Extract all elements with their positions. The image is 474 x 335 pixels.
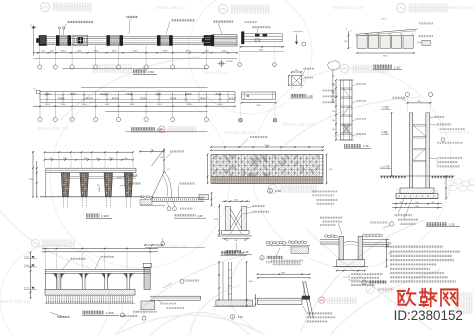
svg-text:1800: 1800	[112, 51, 118, 53]
faint watermark stones right	[445, 179, 474, 191]
svg-text:2800: 2800	[133, 51, 139, 53]
svg-text:1300: 1300	[157, 104, 163, 106]
D3 front elevation	[29, 69, 208, 219]
svg-text:±0.000: ±0.000	[226, 61, 233, 63]
brand logo text (red)	[398, 289, 458, 306]
svg-text:WWW.OM.CN: WWW.OM.CN	[448, 5, 474, 10]
svg-text:1:10: 1:10	[307, 94, 313, 98]
svg-text:500: 500	[332, 111, 335, 113]
svg-text:600: 600	[235, 240, 238, 242]
svg-text:2800: 2800	[94, 51, 100, 53]
svg-text:2x814: 2x814	[381, 19, 387, 21]
D9 rail plan detail	[238, 21, 306, 67]
svg-text:900: 900	[160, 157, 163, 159]
svg-text:ID:2380152: ID:2380152	[394, 308, 463, 323]
svg-text:1600: 1600	[383, 55, 389, 57]
svg-text:2800: 2800	[187, 104, 193, 106]
svg-text:1:100: 1:100	[101, 214, 109, 218]
D5 lattice screen wall panel	[207, 136, 338, 196]
svg-text:100: 100	[432, 202, 435, 204]
svg-text:WWW.OM.CN: WWW.OM.CN	[203, 71, 229, 75]
svg-text:500: 500	[332, 93, 335, 95]
D18 planter/tree-pit section	[320, 217, 394, 286]
svg-text:1100: 1100	[415, 206, 419, 208]
svg-text:500: 500	[332, 129, 335, 131]
D4 coping ramp detail	[139, 148, 212, 210]
svg-text:450: 450	[389, 253, 392, 255]
svg-text:WWW.OM.CN: WWW.OM.CN	[155, 5, 185, 10]
svg-text:1.700: 1.700	[24, 265, 30, 267]
svg-text:0.050: 0.050	[24, 287, 30, 289]
svg-text:1800: 1800	[77, 51, 83, 53]
watermark logos	[40, 2, 92, 11]
svg-text:500: 500	[332, 102, 335, 104]
svg-text:1300: 1300	[105, 104, 111, 106]
svg-text:1:25: 1:25	[243, 250, 249, 254]
svg-text:1:30: 1:30	[238, 315, 244, 319]
svg-text:1100: 1100	[249, 281, 253, 283]
svg-text:3400: 3400	[218, 104, 224, 106]
svg-text:3640: 3640	[265, 145, 271, 147]
D7 stone coping detail	[260, 241, 310, 263]
svg-text:2.100: 2.100	[24, 257, 30, 259]
svg-text:900: 900	[416, 202, 419, 204]
svg-text:1:100: 1:100	[106, 311, 114, 315]
svg-text:WWW.OM.CN: WWW.OM.CN	[440, 130, 470, 135]
svg-text:1:25: 1:25	[449, 222, 455, 226]
watermark lotus curves bottom	[0, 57, 440, 335]
D14 notes text block	[387, 246, 460, 283]
svg-text:1800: 1800	[163, 51, 169, 53]
D15 B-B section	[24, 248, 201, 321]
svg-text:500: 500	[332, 120, 335, 122]
D12 Z1 post elevation	[332, 79, 371, 148]
svg-text:2800: 2800	[186, 51, 192, 53]
svg-text:1300: 1300	[45, 104, 51, 106]
svg-text:500: 500	[332, 85, 335, 87]
D10 beam elevation detail	[239, 92, 277, 122]
svg-text:WWW.OM.CN: WWW.OM.CN	[38, 126, 68, 131]
svg-text:200: 200	[389, 243, 392, 245]
svg-text:100: 100	[226, 240, 229, 242]
svg-text:1:50: 1:50	[148, 70, 154, 74]
svg-text:WWW.OM.CN: WWW.OM.CN	[283, 122, 313, 127]
svg-text:2800: 2800	[82, 104, 88, 106]
svg-text:2800: 2800	[130, 104, 136, 106]
D19 pavement notes	[316, 199, 338, 226]
D6 pier base detail	[144, 199, 269, 254]
svg-text:100: 100	[244, 240, 247, 242]
svg-text:0.000: 0.000	[381, 132, 387, 134]
D8 C7 column detail	[76, 60, 340, 103]
D17 walkway slab section	[254, 260, 335, 323]
svg-text:1800: 1800	[61, 51, 67, 53]
D11 pergola roof slat detail	[344, 19, 433, 70]
svg-text:WWW.OM.CN: WWW.OM.CN	[0, 299, 30, 304]
svg-text:1:25: 1:25	[198, 214, 204, 218]
svg-text:2.100: 2.100	[381, 107, 387, 109]
svg-text:2.15: 2.15	[167, 169, 171, 171]
D13 A-A section	[380, 92, 466, 226]
svg-text:4200: 4200	[222, 51, 228, 53]
D2 roof framing plan	[33, 88, 236, 132]
svg-text:1:10: 1:10	[394, 65, 400, 69]
svg-text:1:50: 1:50	[157, 127, 163, 131]
svg-text:-0.450: -0.450	[380, 166, 387, 168]
D16 kerb detail	[213, 251, 255, 319]
svg-text:WWW.OM.CN: WWW.OM.CN	[225, 130, 255, 135]
institute stamp	[366, 285, 394, 293]
D1 plan view	[30, 16, 238, 75]
svg-text:1:10: 1:10	[363, 144, 369, 148]
svg-text:1:25: 1:25	[239, 251, 245, 255]
svg-text:WWW.OM.CN: WWW.OM.CN	[333, 5, 363, 10]
svg-text:1300: 1300	[61, 104, 67, 106]
svg-text:1:20: 1:20	[275, 189, 281, 193]
